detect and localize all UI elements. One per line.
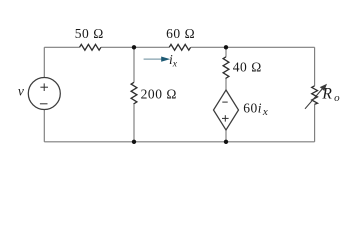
svg-text:40 Ω: 40 Ω [233,59,262,74]
svg-text:200 Ω: 200 Ω [141,87,177,102]
svg-text:60ix: 60ix [243,101,268,119]
svg-text:60 Ω: 60 Ω [166,26,195,41]
svg-text:50 Ω: 50 Ω [75,26,104,41]
svg-text:ix: ix [169,52,178,70]
svg-text:v: v [18,83,24,98]
svg-text:Ro: Ro [321,86,340,104]
